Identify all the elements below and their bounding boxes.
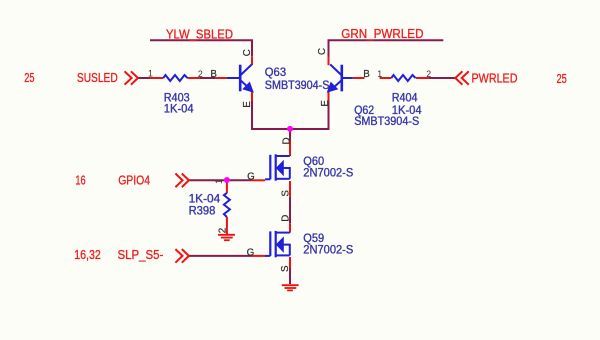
svg-text:Q63: Q63 bbox=[265, 67, 286, 79]
svg-text:PWRLED: PWRLED bbox=[472, 72, 518, 86]
svg-text:E: E bbox=[320, 100, 331, 107]
svg-text:1: 1 bbox=[214, 179, 224, 184]
svg-text:2N7002-S: 2N7002-S bbox=[303, 168, 353, 180]
svg-text:Q60: Q60 bbox=[303, 156, 324, 168]
svg-text:GRN_PWRLED: GRN_PWRLED bbox=[341, 27, 423, 41]
svg-text:R398: R398 bbox=[189, 206, 216, 218]
svg-text:C: C bbox=[317, 48, 328, 55]
svg-text:25: 25 bbox=[557, 72, 567, 86]
svg-text:D: D bbox=[281, 215, 292, 222]
svg-text:G: G bbox=[247, 247, 255, 258]
svg-text:2N7002-S: 2N7002-S bbox=[303, 245, 353, 257]
svg-text:2: 2 bbox=[218, 228, 229, 233]
svg-text:16,32: 16,32 bbox=[74, 248, 101, 262]
svg-text:S: S bbox=[280, 265, 291, 272]
svg-text:B: B bbox=[363, 69, 370, 80]
svg-text:16: 16 bbox=[75, 174, 85, 188]
svg-text:1: 1 bbox=[148, 69, 153, 79]
svg-text:1: 1 bbox=[377, 69, 382, 79]
svg-text:B: B bbox=[210, 69, 217, 80]
svg-text:S: S bbox=[281, 190, 292, 197]
svg-text:G: G bbox=[247, 171, 255, 182]
svg-text:R404: R404 bbox=[392, 93, 418, 105]
svg-text:YLW_SBLED: YLW_SBLED bbox=[166, 27, 233, 41]
svg-text:D: D bbox=[281, 137, 292, 144]
svg-text:25: 25 bbox=[24, 71, 34, 85]
svg-text:2: 2 bbox=[426, 69, 431, 79]
svg-text:E: E bbox=[242, 101, 253, 108]
svg-text:SMBT3904-S: SMBT3904-S bbox=[265, 80, 330, 92]
svg-text:SUSLED: SUSLED bbox=[77, 71, 118, 85]
svg-text:R403: R403 bbox=[164, 92, 190, 104]
svg-text:Q59: Q59 bbox=[303, 233, 324, 245]
svg-text:2: 2 bbox=[198, 69, 203, 79]
svg-text:SMBT3904-S: SMBT3904-S bbox=[354, 116, 419, 128]
svg-text:SLP_S5-: SLP_S5- bbox=[118, 248, 164, 262]
svg-text:1K-04: 1K-04 bbox=[164, 104, 195, 116]
svg-text:1K-04: 1K-04 bbox=[189, 194, 221, 206]
svg-text:GPIO4: GPIO4 bbox=[118, 174, 150, 188]
svg-text:C: C bbox=[242, 49, 253, 56]
